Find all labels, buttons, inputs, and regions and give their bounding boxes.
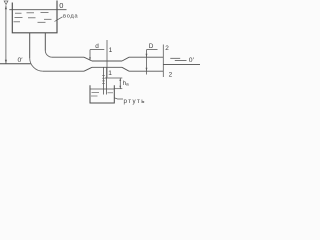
svg-text:2: 2	[169, 71, 173, 78]
svg-text:1: 1	[109, 47, 113, 54]
svg-text:0′: 0′	[189, 57, 195, 64]
svg-text:ha: ha	[123, 81, 129, 87]
vertical pipe wall right	[44, 33, 46, 51]
mercury vessel walls	[90, 85, 114, 103]
mercury label leader	[114, 98, 123, 99]
pipe elbow outer wall	[30, 58, 43, 71]
ha dimension line	[119, 78, 121, 89]
svg-text:0: 0	[59, 1, 63, 10]
svg-text:вода: вода	[63, 13, 79, 19]
vertical pipe wall left	[29, 33, 31, 58]
height dimension line H	[5, 5, 7, 64]
water tank walls	[12, 1, 57, 33]
water hatching	[14, 13, 52, 23]
svg-text:D: D	[149, 43, 154, 50]
manometer tube walls	[102, 67, 104, 94]
svg-text:0′: 0′	[18, 57, 24, 64]
svg-text:1: 1	[108, 70, 112, 77]
pipe bottom wall	[43, 70, 84, 72]
throat walls d	[92, 60, 122, 62]
water label leader	[55, 17, 63, 22]
datum line left	[0, 63, 31, 65]
d dimension leader	[89, 50, 104, 61]
svg-text:d: d	[95, 43, 99, 50]
pipe elbow inner wall	[45, 51, 52, 58]
mercury hatching	[91, 93, 113, 97]
free-surface symbol (nabla)	[4, 1, 8, 5]
outlet pipe walls D	[129, 56, 163, 58]
mercury surface in vessel	[90, 88, 114, 90]
svg-text:2: 2	[165, 45, 169, 52]
water surface line	[9, 9, 66, 11]
tube mercury shading ticks	[102, 76, 105, 84]
venturi expansion	[122, 57, 129, 61]
section line 1-1	[106, 40, 108, 78]
venturi contraction	[84, 57, 92, 61]
pipe top wall	[52, 56, 84, 58]
section line 2-2	[162, 45, 164, 78]
D dimension leader	[146, 50, 158, 75]
mercury level in tube + reference line	[105, 77, 122, 79]
svg-text:ртуть: ртуть	[124, 98, 146, 105]
mercury surface extension line	[114, 88, 122, 90]
jet surface dashes	[170, 57, 180, 59]
datum line right	[163, 63, 200, 65]
